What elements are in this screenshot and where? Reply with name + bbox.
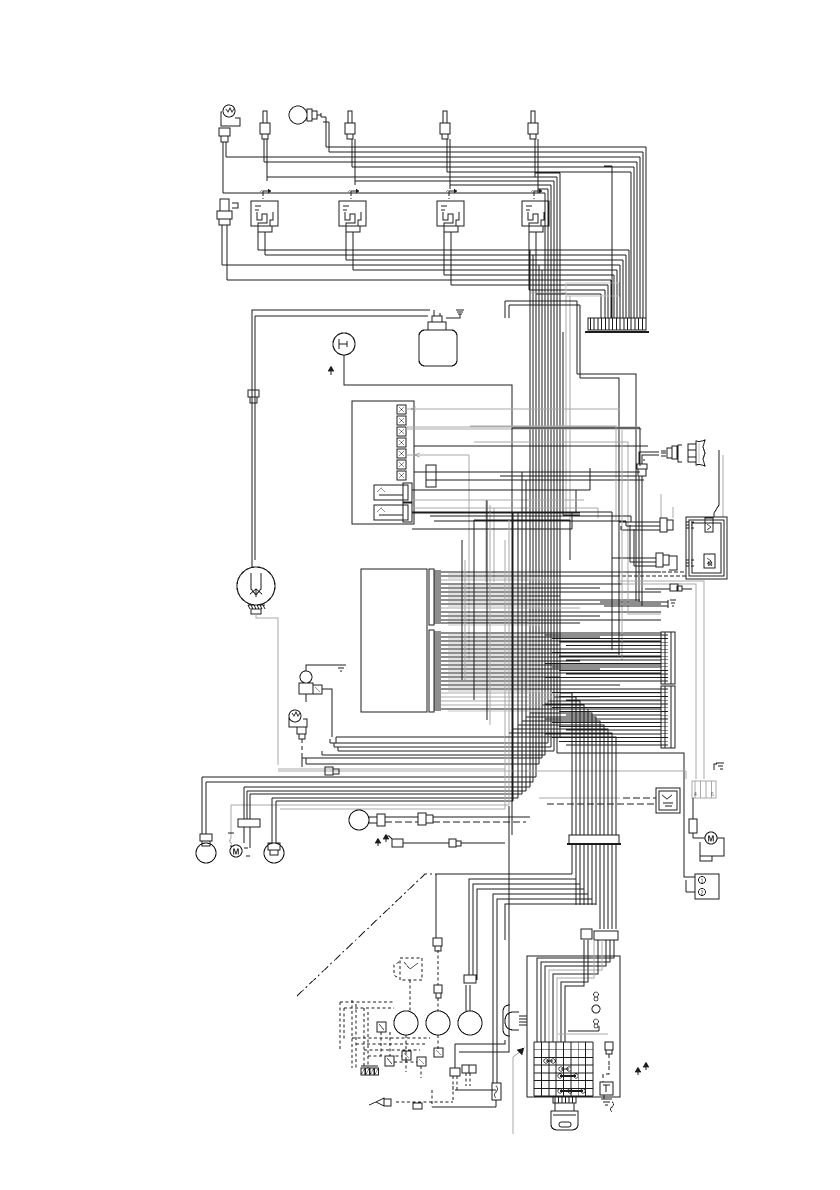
svg-text:2: 2 (701, 891, 704, 897)
svg-text:M: M (233, 848, 240, 857)
svg-text:M: M (708, 835, 715, 844)
svg-text:4: 4 (694, 792, 697, 798)
svg-text:M: M (708, 562, 713, 568)
svg-text:6: 6 (711, 792, 714, 798)
svg-text:1: 1 (701, 879, 704, 885)
